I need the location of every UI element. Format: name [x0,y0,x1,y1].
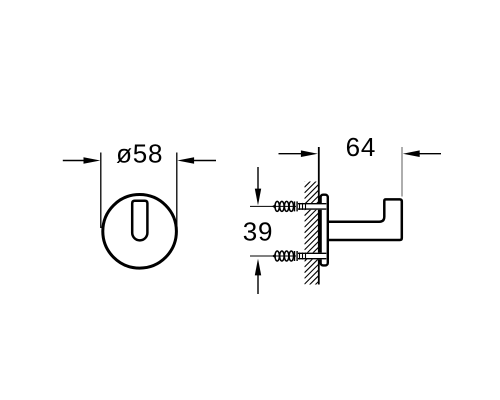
extension line right of 64 (hook tip) [401,147,403,197]
wall face line (also 64 left extension) [318,147,320,285]
hook front view U slot [132,201,147,241]
dimension 64 right arrowhead [403,150,420,157]
screw 1 shank [298,203,326,210]
hook arm and upright outline [328,199,402,240]
dimension 64 left arrowhead [301,150,318,157]
extension line right of d58 [176,153,178,229]
dimension 64 left tail [279,153,302,155]
dimension d58 right tail [194,160,217,162]
screw 1 collar bars [294,201,296,211]
dimension d58 right arrowhead [177,157,194,164]
screw 1 tip [272,204,276,209]
dimension d58 left arrowhead [84,157,101,164]
dimension 39 top tail [257,167,259,190]
screw 2 shank [298,253,326,260]
screw 2 axis extension line [250,255,296,257]
svg-text:ø58: ø58 [116,139,163,169]
dimension 64 right tail [419,153,441,155]
screw 2 collar bars [294,251,296,261]
dimension 39 bottom arrowhead (up) [255,259,261,276]
dimension 39 top arrowhead (down) [255,189,261,206]
wall hatching [305,162,319,301]
screw 1 thread ticks [299,203,301,210]
hook front view circle [103,195,177,269]
svg-text:64: 64 [346,132,377,162]
screw 2 (bottom) [250,251,326,261]
svg-text:39: 39 [243,217,274,247]
screw 2 tip [272,254,276,259]
dimension d58 left tail [63,160,85,162]
dimension 39 bottom tail [257,275,259,294]
screw 2 coil loops [275,251,293,261]
mounting plate [321,195,328,266]
screw 1 (top) [250,201,326,211]
screw 2 thread ticks [299,253,301,260]
extension line left of d58 [100,153,102,229]
screw 1 coil loops [275,201,293,211]
screw 1 axis extension line [250,205,296,207]
